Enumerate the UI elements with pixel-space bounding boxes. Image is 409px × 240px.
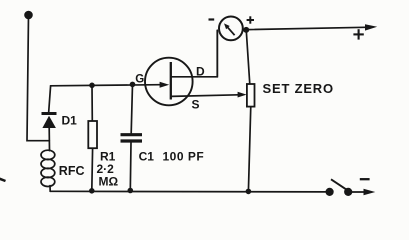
svg-text:100 PF: 100 PF bbox=[163, 150, 205, 164]
svg-text:MΩ: MΩ bbox=[99, 174, 119, 188]
svg-text:RFC: RFC bbox=[59, 164, 85, 178]
svg-text:G: G bbox=[135, 73, 144, 85]
svg-text:D: D bbox=[196, 64, 205, 78]
svg-text:C1: C1 bbox=[139, 150, 155, 164]
svg-text:SET ZERO: SET ZERO bbox=[263, 81, 334, 96]
svg-text:S: S bbox=[192, 98, 200, 112]
svg-text:D1: D1 bbox=[62, 114, 78, 128]
